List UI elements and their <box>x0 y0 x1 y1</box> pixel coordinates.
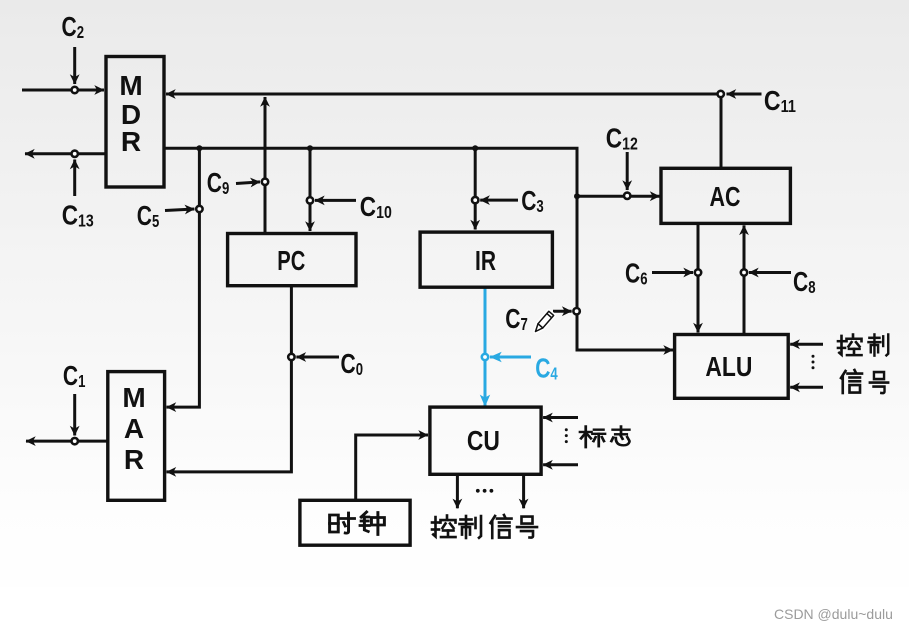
svg-text:R: R <box>121 126 141 157</box>
wire: C7 arrow into node <box>553 310 572 313</box>
wire: C0 arrow into node <box>296 356 339 359</box>
wire: C2 drop arrow <box>73 47 76 84</box>
wire: flags arrow 2 into CU right <box>543 463 578 466</box>
wire: CU output arrow 1 <box>456 474 459 508</box>
svg-text:CSDN @dulu~dulu: CSDN @dulu~dulu <box>774 606 893 622</box>
wire: MDR output to left <box>25 152 106 155</box>
wire: C8 arrow into node <box>749 271 791 274</box>
dots: ellipsis under CU <box>476 489 493 493</box>
wire: MAR output to left <box>26 440 108 443</box>
wire: C1 drop arrow <box>73 394 76 436</box>
node C8 switch <box>741 269 747 275</box>
register PC <box>228 234 356 286</box>
wire: PC down to MAR through C0 <box>167 286 292 472</box>
dots: vertical ellipsis flags <box>565 428 568 443</box>
node C1 switch <box>72 438 78 444</box>
node C7 switch <box>573 308 579 314</box>
node: bus junction at C10 branch <box>307 145 313 151</box>
wire: C5 line from bus to MAR <box>167 148 200 407</box>
wire: C11 arrow into node <box>727 93 762 96</box>
svg-text:A: A <box>124 413 144 444</box>
svg-text:R: R <box>124 444 144 475</box>
wire: C6 arrow into node <box>652 271 693 274</box>
svg-text:CU: CU <box>467 425 500 456</box>
wire: clock up into CU left <box>356 435 428 500</box>
wire: top-left input into MDR <box>22 89 104 92</box>
block ALU <box>675 335 789 399</box>
node C0 switch <box>288 354 294 360</box>
node C10 switch <box>307 197 313 203</box>
icon: pencil annotation next to C7 <box>533 311 554 333</box>
wire: top bus from C11 node into MDR <box>166 93 718 96</box>
node C6 switch <box>695 269 701 275</box>
node C5 switch <box>196 206 202 212</box>
wire: C9 arrow into node <box>236 182 260 184</box>
node: junction to AC branch <box>574 193 580 199</box>
dots: vertical ellipsis control signals <box>812 355 815 369</box>
block clock <box>300 500 410 545</box>
label 信号 (signal) right <box>841 370 888 393</box>
wire: AC down to ALU through C6 <box>697 223 700 332</box>
wire: IR down to CU through C4 (highlighted) <box>484 287 487 406</box>
wire: C12 drop arrow <box>626 152 629 190</box>
svg-text:M: M <box>119 70 142 101</box>
label 控制 (control) right <box>838 334 888 355</box>
wire: CU output arrow 2 <box>522 474 525 508</box>
wire: C13 rise arrow <box>73 160 76 197</box>
register IR <box>420 232 552 287</box>
wire: ALU up to AC through C8 <box>743 225 746 334</box>
wire: node C11 down to AC top <box>720 96 723 170</box>
node: bus junction at C3 branch <box>472 145 478 151</box>
block CU <box>430 407 541 474</box>
svg-text:M: M <box>122 382 145 413</box>
label 标志 (flags) <box>580 426 629 447</box>
svg-text:ALU: ALU <box>705 351 752 382</box>
wire: C3 arrow into node <box>480 199 518 202</box>
wire: branch to AC through C12 <box>577 195 660 198</box>
svg-text:IR: IR <box>475 245 496 276</box>
node C4 switch (highlighted) <box>482 354 488 360</box>
node: bus junction at C5 branch <box>196 145 202 151</box>
wire: PC up to top bus <box>264 97 267 234</box>
wire: control signal arrow 2 into ALU right <box>790 386 823 389</box>
node C11 switch <box>718 91 724 97</box>
wire: C10 arrow into node <box>315 199 356 202</box>
register MAR <box>108 372 165 501</box>
node C12 switch <box>624 193 630 199</box>
wire: bus down to IR through C3 <box>474 148 477 229</box>
wire: control signal arrow 1 into ALU right <box>790 343 823 346</box>
wire: C4 arrow into node <box>490 356 531 359</box>
node C13 switch <box>72 151 78 157</box>
wire: flags arrow 1 into CU right <box>543 416 578 419</box>
register MDR <box>106 57 164 188</box>
node C3 switch <box>472 197 478 203</box>
node C2 switch <box>72 87 78 93</box>
svg-text:AC: AC <box>710 181 741 212</box>
node C9 switch <box>262 179 268 185</box>
wire: C5 arrow into node <box>165 209 194 211</box>
svg-text:PC: PC <box>277 245 305 276</box>
wire: bus down to PC through C10 <box>309 148 312 231</box>
register AC <box>661 168 790 223</box>
label 时钟 (clock) <box>330 512 385 535</box>
label 控制信号 (control signals) bottom <box>432 515 537 538</box>
wire: MDR right output bus <box>164 148 673 350</box>
